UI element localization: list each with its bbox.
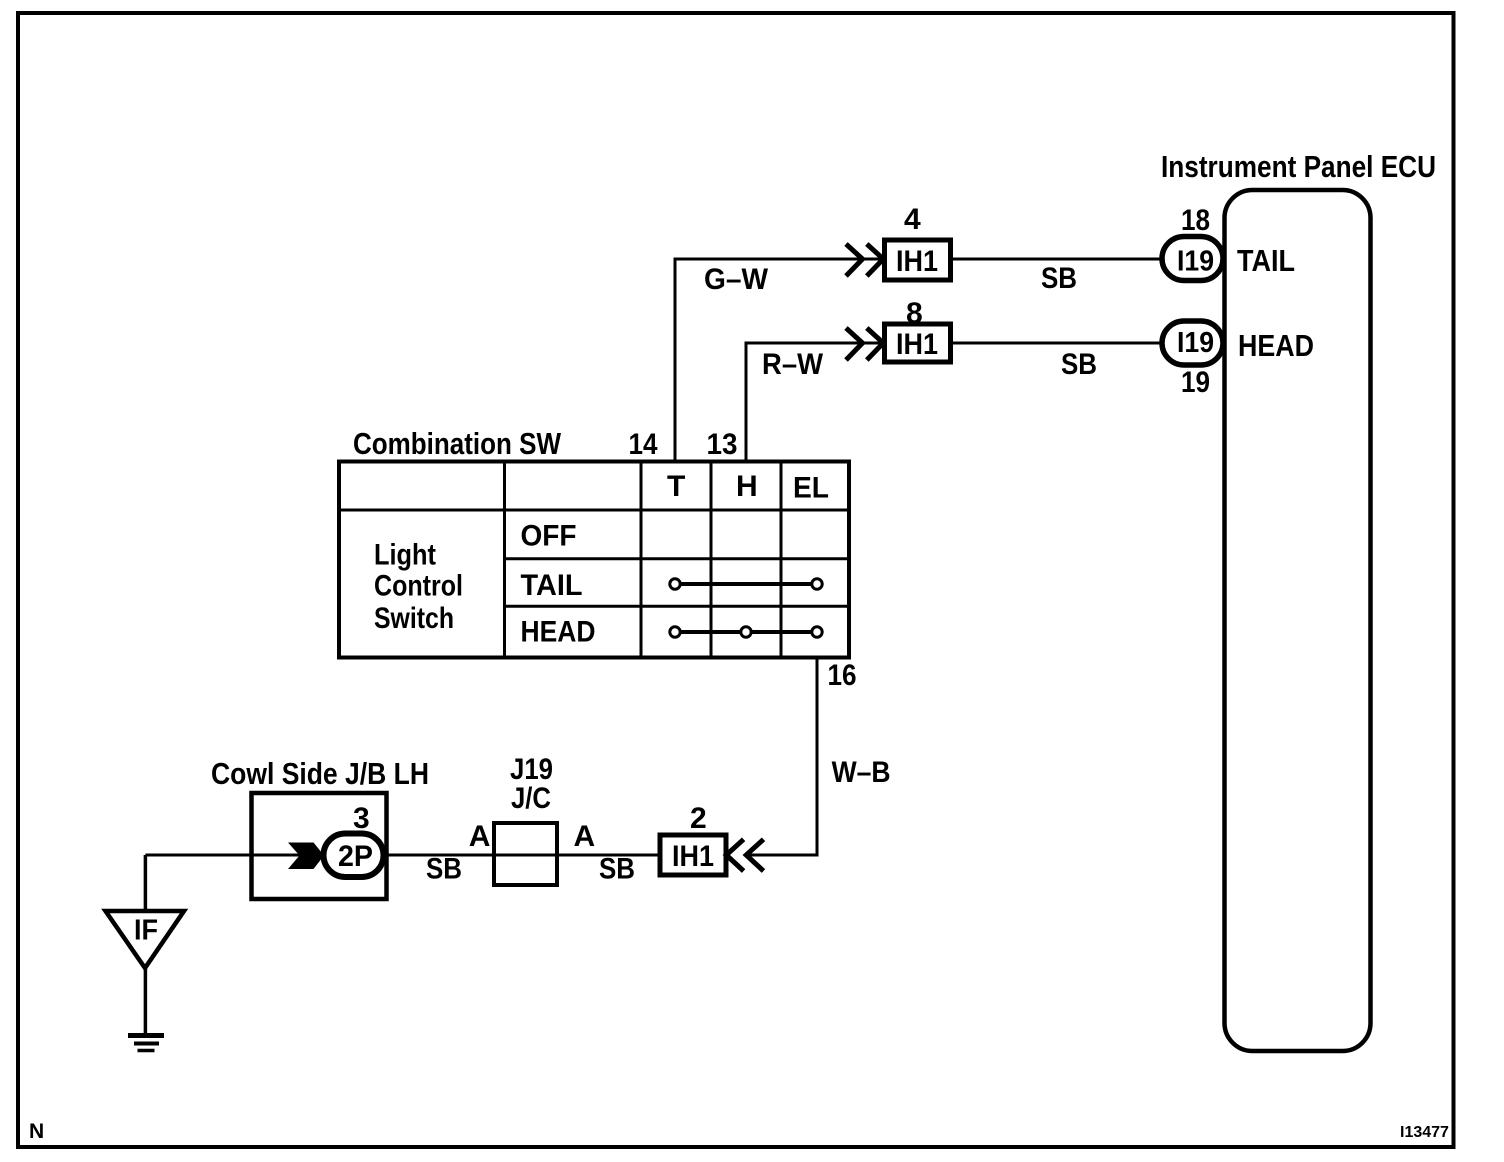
arrow chevrons into IH1 pin 2	[726, 839, 743, 871]
connector IH1 pin 2	[660, 835, 726, 875]
svg-text:HEAD: HEAD	[1238, 328, 1314, 363]
svg-text:A: A	[469, 820, 491, 853]
connector I19 HEAD pill	[1162, 321, 1223, 365]
wire SB from IH1 pin8 to I19 HEAD	[950, 342, 1165, 345]
svg-text:SB: SB	[1061, 348, 1097, 381]
svg-text:H: H	[736, 470, 758, 503]
svg-text:TAIL: TAIL	[1237, 243, 1295, 278]
connector 2P pill	[324, 834, 384, 878]
ground stem	[144, 968, 148, 1035]
svg-text:SB: SB	[1041, 262, 1077, 295]
svg-text:OFF: OFF	[521, 520, 577, 553]
arrow chevrons into IH1 pin 4	[846, 244, 863, 276]
svg-text:IH1: IH1	[672, 840, 714, 873]
connector IH1 pin 4	[885, 240, 951, 280]
svg-text:19: 19	[1181, 366, 1210, 399]
svg-text:J/C: J/C	[511, 782, 551, 815]
connector I19 TAIL pill	[1162, 237, 1223, 281]
wire G-W horizontal to IH1 pin 4	[675, 259, 884, 462]
ground symbol	[128, 1033, 164, 1038]
connector IH1 pin 8	[885, 324, 951, 362]
svg-text:A: A	[574, 820, 596, 853]
svg-text:Instrument Panel ECU: Instrument Panel ECU	[1161, 149, 1436, 184]
wire W-B down from switch pin 16	[746, 658, 817, 856]
table column lines	[503, 462, 506, 658]
svg-text:Light: Light	[374, 539, 436, 572]
ground triangle IF	[106, 911, 185, 968]
svg-text:IF: IF	[134, 915, 158, 947]
svg-text:N: N	[29, 1120, 44, 1143]
svg-text:SB: SB	[599, 853, 635, 886]
svg-text:Control: Control	[374, 569, 463, 602]
svg-text:4: 4	[904, 203, 921, 236]
ground wire run	[145, 854, 660, 857]
svg-text:T: T	[667, 470, 685, 503]
switch contact TAIL row	[675, 582, 817, 586]
ground riser wire	[144, 855, 148, 911]
svg-text:I19: I19	[1177, 246, 1214, 278]
svg-text:EL: EL	[793, 472, 829, 505]
junction box Cowl Side J/B LH	[252, 793, 387, 899]
svg-text:I19: I19	[1177, 327, 1214, 359]
arrow into 2P	[288, 843, 324, 870]
svg-text:TAIL: TAIL	[521, 569, 583, 602]
svg-text:R–W: R–W	[762, 348, 824, 381]
svg-text:HEAD: HEAD	[521, 616, 596, 649]
ECU I19 body	[1225, 190, 1371, 1051]
switch contact HEAD row	[675, 630, 817, 634]
svg-text:16: 16	[828, 659, 857, 692]
svg-text:18: 18	[1181, 204, 1210, 237]
svg-text:G–W: G–W	[704, 263, 769, 296]
arrow chevrons into IH1 pin 8	[846, 328, 863, 360]
svg-text:W–B: W–B	[832, 756, 891, 789]
svg-text:Cowl Side J/B LH: Cowl Side J/B LH	[211, 756, 429, 791]
junction connector J19 J/C box	[494, 823, 557, 885]
svg-text:2P: 2P	[338, 840, 373, 873]
wire SB from IH1 pin4 to I19 TAIL	[950, 258, 1165, 261]
svg-text:IH1: IH1	[896, 328, 938, 361]
svg-text:3: 3	[353, 802, 370, 835]
wire R-W horizontal to IH1 pin 8	[746, 343, 884, 462]
table row lines	[339, 509, 849, 512]
svg-text:SB: SB	[426, 853, 462, 886]
switch table outer box	[339, 462, 849, 658]
svg-text:8: 8	[906, 297, 923, 330]
svg-text:2: 2	[690, 802, 707, 835]
svg-text:I13477: I13477	[1400, 1124, 1449, 1141]
svg-text:14: 14	[629, 428, 658, 461]
svg-text:Combination SW: Combination SW	[353, 426, 562, 461]
svg-text:13: 13	[707, 428, 738, 461]
svg-text:IH1: IH1	[896, 245, 938, 278]
svg-text:Switch: Switch	[374, 602, 454, 635]
